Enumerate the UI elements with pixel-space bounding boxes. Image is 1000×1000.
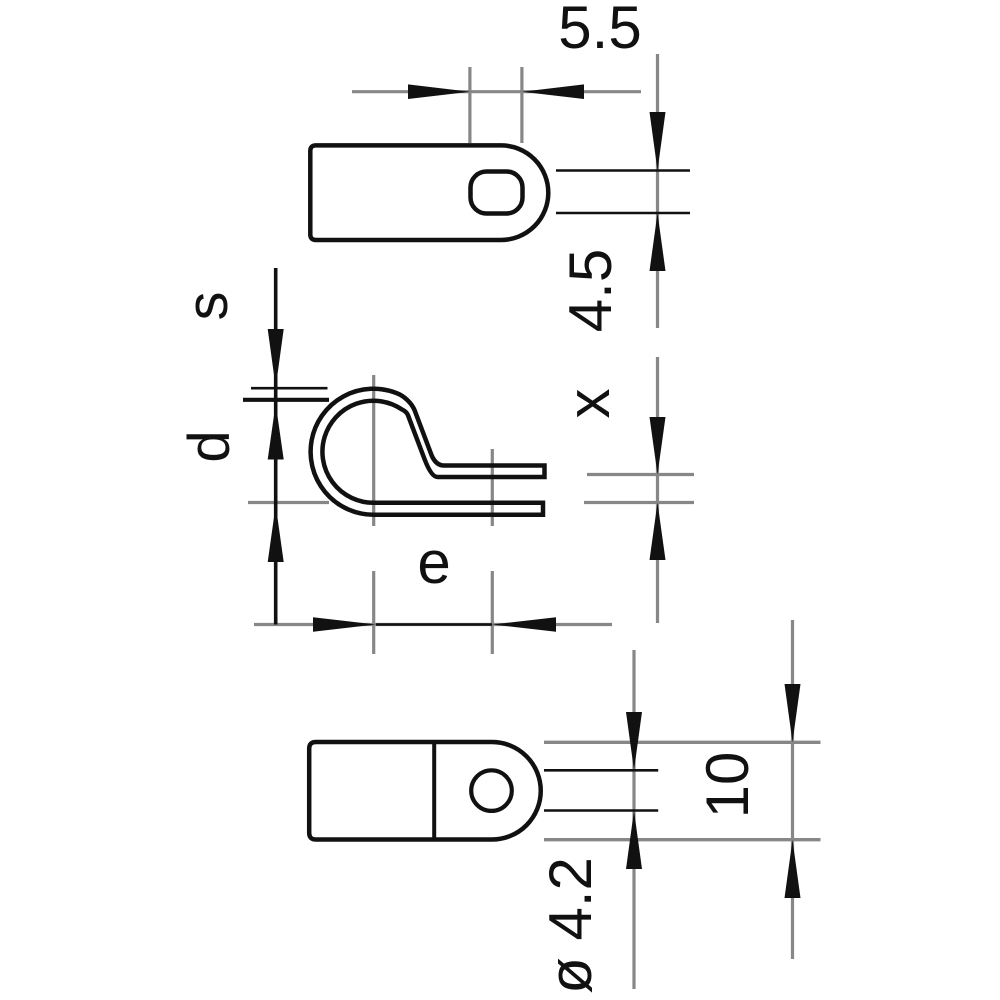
svg-text:s: s	[175, 292, 240, 321]
svg-text:4.5: 4.5	[557, 249, 624, 332]
svg-text:10: 10	[694, 752, 761, 819]
svg-text:ø 4.2: ø 4.2	[537, 857, 604, 994]
svg-text:5.5: 5.5	[558, 0, 641, 61]
svg-text:x: x	[555, 389, 622, 419]
svg-text:d: d	[177, 430, 242, 462]
svg-text:e: e	[417, 529, 450, 596]
